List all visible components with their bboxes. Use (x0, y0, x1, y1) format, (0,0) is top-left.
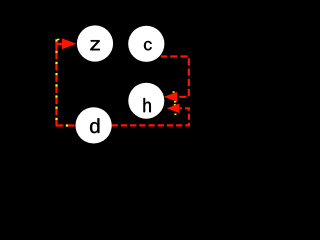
arrowhead into z (62, 38, 76, 49)
edge d->h red dashes (112, 108, 189, 125)
edge d->z elbow yellow tick (57, 39, 60, 41)
yellow tick arrow2 top (174, 104, 176, 105)
label c (144, 41, 152, 50)
label d (90, 118, 99, 133)
edge d->z vertical wire red dashes (55, 39, 57, 126)
edge d->z corner dash fill (55, 42, 57, 52)
edge d->z bottom wire yellow underlay (57, 124, 76, 126)
edge d->z vertical wire yellow underlay (55, 39, 57, 126)
yellow tick arrow2 bottom (174, 114, 176, 115)
arrowhead 1 into h (164, 92, 178, 102)
edge c->h red dashes (161, 57, 189, 97)
label h (144, 98, 151, 112)
edge d->z bottom wire red dashes (57, 124, 76, 126)
edge d->z top connector wire (58, 43, 64, 45)
yellow tick arrow1 bottom (174, 101, 176, 103)
arrowhead 2 into h (167, 104, 180, 114)
node c circle (128, 26, 164, 62)
node h circle (128, 83, 164, 119)
label z (90, 40, 99, 50)
node z circle (77, 25, 113, 61)
yellow tick arrow1 top (173, 91, 175, 93)
node d circle (76, 107, 112, 143)
